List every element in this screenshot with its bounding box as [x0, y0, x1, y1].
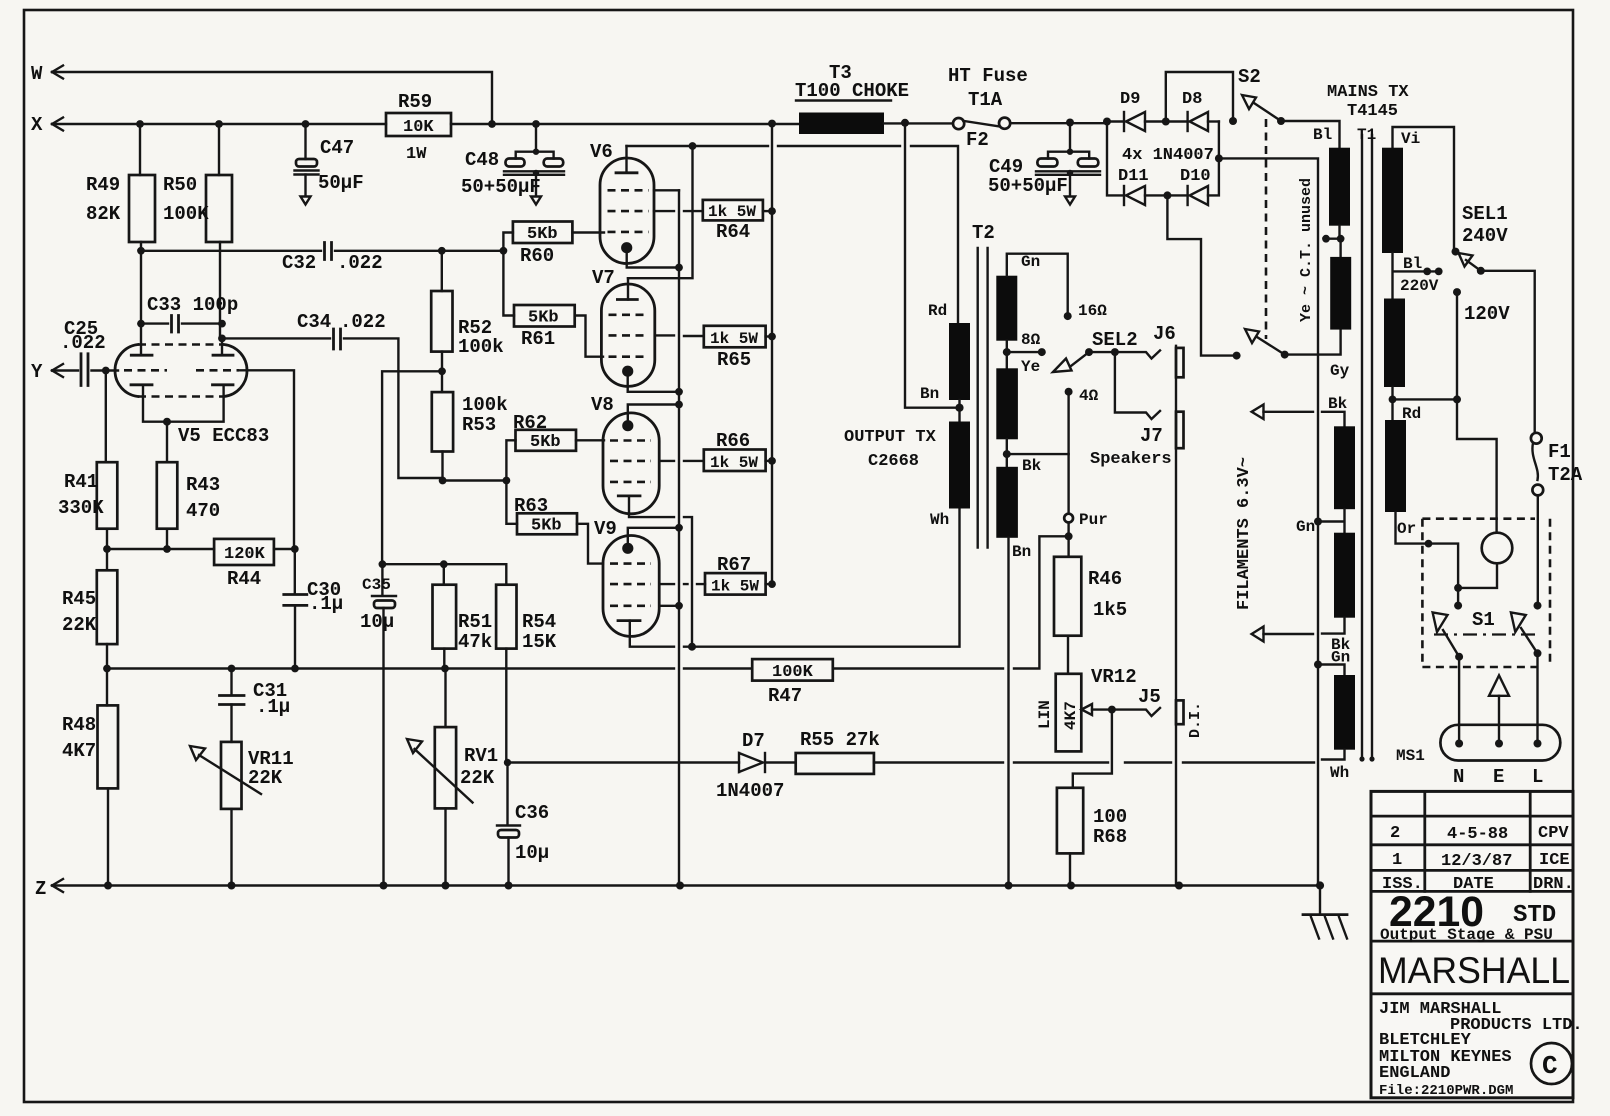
svg-text:Bn: Bn — [920, 385, 939, 403]
svg-text:Bk: Bk — [1328, 395, 1348, 413]
svg-text:4K7: 4K7 — [62, 740, 96, 762]
svg-text:4x 1N4007: 4x 1N4007 — [1122, 146, 1214, 165]
valve V6 — [590, 141, 679, 268]
transformer T1 heater bar A — [1334, 426, 1355, 509]
valve V8 — [591, 394, 692, 647]
svg-text:LIN: LIN — [1036, 700, 1054, 729]
transformer T1 primary mid bar — [1384, 299, 1405, 388]
svg-text:Z: Z — [35, 878, 46, 900]
svg-text:Wh: Wh — [1330, 764, 1349, 782]
switch S2 pole 1 — [1229, 66, 1340, 148]
potentiometer RV1 22K — [407, 669, 498, 886]
svg-text:4K7: 4K7 — [1062, 701, 1080, 730]
transformer T1 primary Vi bar — [1382, 127, 1454, 253]
svg-text:Gn: Gn — [1296, 518, 1315, 536]
arrow heater feed 2 — [1252, 618, 1351, 667]
capacitor C30 .1u — [284, 549, 343, 669]
titleblock 2210 STD — [1380, 888, 1556, 944]
svg-text:.022: .022 — [60, 332, 106, 354]
svg-text:Bk: Bk — [1022, 457, 1042, 475]
svg-text:R44: R44 — [227, 568, 261, 590]
capacitor C35 10u — [360, 560, 396, 885]
wire C34 coupling row to R62/R63 — [439, 477, 511, 485]
resistor R68 100 — [1057, 710, 1127, 886]
svg-text:5Kb: 5Kb — [527, 225, 558, 244]
transformer T1 bias winding bar — [1318, 665, 1355, 783]
svg-text:1k 5W: 1k 5W — [710, 330, 758, 348]
wire cathode bus — [675, 190, 683, 885]
svg-text:D9: D9 — [1120, 90, 1140, 109]
svg-text:J6: J6 — [1153, 323, 1176, 345]
capacitor C48 50+50uF — [461, 124, 564, 205]
svg-text:FILAMENTS 6.3V~: FILAMENTS 6.3V~ — [1235, 457, 1254, 610]
node Z rail — [35, 878, 1320, 900]
svg-text:J5: J5 — [1138, 686, 1161, 708]
resistor R64 1k 5W — [654, 200, 776, 243]
svg-text:100k: 100k — [458, 336, 504, 358]
svg-text:W: W — [31, 63, 43, 85]
resistor R65 1k 5W — [655, 326, 776, 371]
svg-text:Wh: Wh — [930, 511, 949, 529]
svg-text:.1µ: .1µ — [309, 593, 343, 615]
svg-text:Bn: Bn — [1012, 543, 1031, 561]
svg-text:R66: R66 — [716, 430, 750, 452]
ground symbol — [1303, 881, 1347, 938]
svg-text:ICE: ICE — [1539, 851, 1570, 870]
wire NFB line left — [103, 665, 752, 673]
svg-text:HT Fuse: HT Fuse — [948, 65, 1028, 87]
svg-text:T100 CHOKE: T100 CHOKE — [795, 80, 909, 102]
svg-text:8Ω: 8Ω — [1021, 331, 1041, 349]
svg-text:R54: R54 — [522, 611, 556, 633]
resistor R55 27k — [796, 729, 1314, 774]
wire heater CT Gn — [1296, 509, 1345, 536]
svg-text:R65: R65 — [717, 349, 751, 371]
wire bridge DC- to ground bus — [1215, 154, 1322, 882]
wire plate bus V6/V7 — [627, 142, 959, 323]
wire R41/R43 junction row — [103, 545, 214, 553]
svg-text:82K: 82K — [86, 203, 121, 225]
svg-text:R45: R45 — [62, 588, 96, 610]
svg-text:330K: 330K — [58, 497, 104, 519]
svg-text:Bl: Bl — [1313, 126, 1332, 144]
svg-text:120V: 120V — [1464, 303, 1510, 325]
svg-text:E: E — [1493, 766, 1504, 788]
svg-text:10µ: 10µ — [360, 611, 394, 633]
transformer T1 heater bar B — [1334, 533, 1355, 618]
capacitor C49 50+50uF — [988, 119, 1100, 205]
resistor R45 22K — [62, 570, 117, 705]
svg-text:1k 5W: 1k 5W — [710, 454, 758, 472]
wire tap Or — [1396, 512, 1459, 588]
valve V5 ECC83 — [115, 324, 294, 548]
wire 4 ohm tap — [1007, 387, 1099, 454]
svg-text:Or: Or — [1397, 520, 1416, 538]
svg-text:V7: V7 — [592, 267, 615, 289]
svg-text:F1: F1 — [1548, 441, 1571, 463]
svg-text:Y: Y — [31, 361, 43, 383]
transformer T2 output primary Wh bar — [930, 422, 970, 530]
jack DI — [1176, 700, 1204, 738]
svg-text:DRN.: DRN. — [1533, 875, 1574, 894]
capacitor C47 50uF — [295, 124, 364, 205]
resistor R53 100k — [432, 392, 508, 481]
svg-text:R64: R64 — [716, 221, 750, 243]
capacitor C36 10u — [497, 759, 549, 886]
svg-text:10K: 10K — [403, 118, 434, 137]
svg-text:File:2210PWR.DGM: File:2210PWR.DGM — [1379, 1083, 1513, 1099]
svg-text:N: N — [1453, 766, 1464, 788]
diode D7 1N4007 — [508, 730, 796, 802]
svg-text:5Kb: 5Kb — [530, 433, 561, 452]
wire V9 grid3 tie — [659, 602, 683, 610]
svg-text:.022: .022 — [340, 311, 386, 333]
svg-text:D11: D11 — [1118, 167, 1149, 186]
svg-text:Ye: Ye — [1021, 358, 1040, 376]
svg-text:Gy: Gy — [1330, 362, 1350, 380]
svg-text:R68: R68 — [1093, 826, 1127, 848]
svg-text:L: L — [1532, 766, 1543, 788]
switch S2 gang line — [1265, 119, 1268, 339]
svg-text:R49: R49 — [86, 174, 120, 196]
titleblock issue rows — [1382, 824, 1574, 894]
svg-text:R46: R46 — [1088, 568, 1122, 590]
label OUTPUT TX C2668 — [844, 428, 937, 471]
resistor R59 10K 1W — [386, 91, 451, 164]
resistor R49 82K — [86, 124, 155, 324]
capacitor C34 .022 — [218, 311, 443, 478]
svg-text:V6: V6 — [590, 141, 613, 163]
svg-text:100K: 100K — [772, 663, 814, 682]
node W rail — [31, 63, 492, 124]
transformer T2 secondary Bk bar — [996, 439, 1041, 885]
switch S1 dashed box — [1422, 519, 1550, 667]
wire X to choke — [451, 120, 799, 128]
arrow earth E — [1489, 675, 1509, 743]
svg-text:C34: C34 — [297, 311, 331, 333]
switch S1 pole A — [1433, 588, 1464, 744]
svg-text:SEL2: SEL2 — [1092, 329, 1138, 351]
wire screen bus — [771, 124, 773, 584]
svg-text:470: 470 — [186, 500, 220, 522]
svg-text:F2: F2 — [966, 129, 989, 151]
wire B+ to OT centre tap — [905, 123, 960, 408]
svg-text:R41: R41 — [64, 471, 98, 493]
svg-text:T2: T2 — [972, 222, 995, 244]
transformer T2 secondary Gn bar — [996, 253, 1107, 341]
valve V7 — [592, 267, 679, 392]
wire V6 grid3 tie — [654, 189, 679, 191]
selector SEL2 — [1053, 329, 1138, 372]
svg-text:C36: C36 — [515, 802, 549, 824]
transformer T1 core — [1357, 126, 1376, 762]
svg-text:V5 ECC83: V5 ECC83 — [178, 425, 269, 447]
svg-text:C33 100p: C33 100p — [147, 294, 238, 316]
titleblock frame — [1371, 791, 1573, 1097]
svg-text:T1: T1 — [1357, 126, 1376, 144]
svg-text:Pur: Pur — [1079, 511, 1108, 529]
svg-text:CPV: CPV — [1538, 824, 1569, 843]
diode D9 — [1103, 90, 1166, 131]
svg-text:S2: S2 — [1238, 66, 1261, 88]
svg-text:Vi: Vi — [1401, 130, 1420, 148]
node X rail — [31, 114, 386, 136]
svg-text:2: 2 — [1390, 824, 1400, 843]
wire tap Rd — [1389, 387, 1457, 423]
svg-text:.1µ: .1µ — [256, 696, 290, 718]
resistor R46 1k5 — [1054, 557, 1127, 674]
svg-text:C32: C32 — [282, 252, 316, 274]
svg-text:16Ω: 16Ω — [1078, 302, 1107, 320]
wire tap Bl 220V — [1393, 253, 1443, 299]
resistor R54 15K — [496, 585, 557, 763]
svg-text:47k: 47k — [458, 631, 492, 653]
jack J7 — [1090, 352, 1172, 469]
svg-text:15K: 15K — [522, 631, 557, 653]
svg-text:22K: 22K — [460, 767, 495, 789]
fuse F2 HT Fuse T1A — [948, 65, 1107, 151]
resistor R48 4K7 — [62, 705, 118, 885]
svg-text:R48: R48 — [62, 714, 96, 736]
svg-text:STD: STD — [1513, 902, 1556, 929]
svg-text:120K: 120K — [224, 545, 266, 564]
svg-text:R59: R59 — [398, 91, 432, 113]
wire V8/V9 plates to OT — [688, 509, 960, 651]
wire bridge AC1 to S2 — [1166, 72, 1233, 122]
resistor R44 120K — [214, 539, 299, 590]
svg-text:MARSHALL: MARSHALL — [1378, 950, 1570, 991]
svg-text:Output Stage & PSU: Output Stage & PSU — [1380, 926, 1553, 944]
svg-text:R51: R51 — [458, 611, 492, 633]
wire R51/R54 top row — [382, 560, 506, 584]
svg-text:T4145: T4145 — [1347, 102, 1398, 121]
svg-text:Gn: Gn — [1021, 253, 1040, 271]
capacitor C32 .022 — [137, 243, 507, 275]
resistor R60 5Kb — [503, 222, 604, 268]
svg-text:C48: C48 — [465, 149, 499, 171]
svg-text:Ye ~ C.T. unused: Ye ~ C.T. unused — [1298, 178, 1315, 322]
resistor R67 1k 5W — [659, 554, 776, 596]
svg-text:MS1: MS1 — [1396, 747, 1425, 765]
svg-text:OUTPUT TX: OUTPUT TX — [844, 428, 937, 447]
svg-text:22K: 22K — [248, 767, 283, 789]
svg-text:T1A: T1A — [968, 89, 1003, 111]
resistor R50 100K — [163, 124, 232, 338]
svg-text:50µF: 50µF — [318, 172, 364, 194]
svg-text:Speakers: Speakers — [1090, 450, 1172, 469]
svg-text:R63: R63 — [514, 495, 548, 517]
svg-text:D8: D8 — [1182, 90, 1202, 109]
resistor R61 5Kb — [503, 251, 603, 357]
svg-text:VR12: VR12 — [1091, 666, 1137, 688]
svg-text:Rd: Rd — [928, 302, 947, 320]
svg-text:R61: R61 — [521, 328, 555, 350]
svg-text:S1: S1 — [1472, 609, 1495, 631]
potentiometer VR12 4K7 LIN — [1036, 666, 1137, 751]
svg-text:R62: R62 — [513, 412, 547, 434]
resistor R47 100K — [752, 536, 1070, 707]
svg-text:MAINS TX: MAINS TX — [1327, 83, 1409, 102]
svg-text:R60: R60 — [520, 245, 554, 267]
titleblock address — [1379, 1000, 1583, 1099]
choke T3 T100 — [795, 62, 952, 134]
switch S2 pole 2 — [1233, 329, 1341, 360]
potentiometer VR11 22K — [190, 742, 294, 886]
svg-text:D10: D10 — [1180, 167, 1211, 186]
svg-text:240V: 240V — [1462, 225, 1508, 247]
svg-text:J7: J7 — [1140, 425, 1163, 447]
svg-text:R43: R43 — [186, 474, 220, 496]
svg-text:T2A: T2A — [1548, 464, 1583, 486]
svg-text:1N4007: 1N4007 — [716, 780, 784, 802]
svg-text:100K: 100K — [163, 203, 209, 225]
svg-text:1W: 1W — [406, 145, 427, 164]
svg-text:C35: C35 — [362, 576, 391, 594]
svg-text:R55 27k: R55 27k — [800, 729, 880, 751]
svg-text:C: C — [1542, 1051, 1558, 1081]
transformer T2 output primary Rd bar — [920, 302, 970, 422]
svg-text:R53: R53 — [462, 414, 496, 436]
jack sleeve bus and bodies — [1176, 346, 1184, 886]
diode D8 — [1162, 90, 1219, 131]
svg-text:1k5: 1k5 — [1093, 599, 1127, 621]
svg-text:.022: .022 — [337, 252, 383, 274]
svg-text:10µ: 10µ — [515, 842, 549, 864]
capacitor C33 100p — [137, 294, 238, 332]
wire T1 CT Ye unused — [1322, 226, 1344, 257]
transformer T1 HT secondary Gy bar — [1330, 257, 1351, 380]
svg-text:100: 100 — [1093, 806, 1127, 828]
svg-text:22K: 22K — [62, 614, 97, 636]
capacitor C25 .022 — [60, 318, 118, 462]
svg-text:4-5-88: 4-5-88 — [1447, 825, 1508, 844]
svg-text:5Kb: 5Kb — [531, 517, 562, 536]
label MAINS TX T4145 — [1327, 83, 1409, 121]
svg-text:1: 1 — [1392, 851, 1402, 870]
svg-text:220V: 220V — [1400, 277, 1439, 295]
symbol circled C — [1531, 1043, 1572, 1084]
svg-text:50+50µF: 50+50µF — [461, 176, 541, 198]
svg-text:4Ω: 4Ω — [1079, 387, 1099, 405]
lamp neon — [1454, 533, 1512, 592]
svg-text:100k: 100k — [462, 394, 508, 416]
svg-text:Bl: Bl — [1403, 255, 1422, 273]
resistor R51 47k — [433, 585, 493, 669]
wire R52/R53 junction to C35 — [382, 352, 446, 565]
diode D10 — [1163, 122, 1219, 206]
svg-text:V9: V9 — [594, 518, 617, 540]
svg-text:5Kb: 5Kb — [528, 309, 559, 328]
resistor R52 100k — [431, 251, 503, 358]
circle Pur tap — [1064, 454, 1108, 557]
svg-text:R50: R50 — [163, 174, 197, 196]
arrow heater feed 1 — [1252, 395, 1348, 426]
svg-text:1k 5W: 1k 5W — [708, 203, 756, 221]
transformer T1 primary low bar — [1385, 420, 1406, 512]
svg-text:RV1: RV1 — [464, 745, 498, 767]
resistor R43 470 — [157, 462, 220, 549]
jack J5 — [1112, 686, 1161, 716]
resistor R62 5Kb — [506, 412, 604, 481]
resistor R63 5Kb — [506, 481, 603, 564]
svg-text:12/3/87: 12/3/87 — [1441, 852, 1512, 871]
svg-text:V8: V8 — [591, 394, 614, 416]
node Y rail — [31, 361, 78, 383]
diode D11 — [1107, 122, 1167, 206]
svg-text:C47: C47 — [320, 137, 354, 159]
connector MS1 N E L — [1396, 725, 1560, 788]
svg-text:D.I.: D.I. — [1187, 702, 1204, 738]
valve V9 — [594, 518, 692, 647]
selector SEL1 — [1452, 203, 1535, 433]
transformer T2 secondary Ye bar — [996, 331, 1046, 439]
fuse F1 T2A — [1531, 433, 1583, 606]
svg-text:D7: D7 — [742, 730, 765, 752]
svg-text:ENGLAND: ENGLAND — [1379, 1064, 1450, 1083]
transformer T1 HT secondary Bl bar — [1313, 126, 1350, 226]
svg-text:C2668: C2668 — [868, 452, 919, 471]
svg-text:R47: R47 — [768, 685, 802, 707]
wire 120V tap — [1453, 288, 1510, 532]
switch S1 pole B — [1511, 602, 1542, 744]
svg-text:1k 5W: 1k 5W — [711, 578, 759, 596]
wire bridge AC2 to S2 — [1167, 195, 1233, 355]
svg-text:R67: R67 — [717, 554, 751, 576]
capacitor C31 .1u — [220, 669, 291, 742]
svg-text:50+50µF: 50+50µF — [988, 175, 1068, 197]
jack J6 — [1111, 323, 1176, 359]
resistor R66 1k 5W — [659, 430, 776, 472]
resistor R41 330K — [58, 462, 117, 570]
svg-text:SEL1: SEL1 — [1462, 203, 1508, 225]
transformer T2 core — [972, 222, 995, 548]
svg-text:X: X — [31, 114, 43, 136]
